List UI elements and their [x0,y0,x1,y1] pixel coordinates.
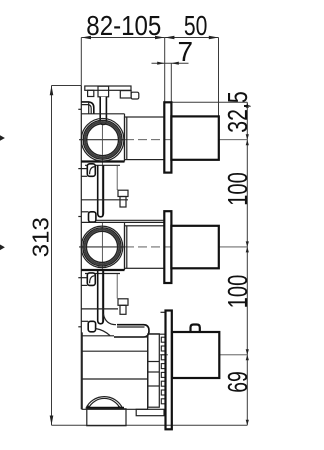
svg-text:32,5: 32,5 [222,91,253,133]
connecting pipe 1 [98,166,104,217]
valve1 block top edge [81,113,124,115]
flow arrow upper left [0,135,5,141]
stub screw gap1 head [118,190,128,196]
diverter right column [148,334,159,407]
bracket screw shaft [100,97,106,125]
top mounting bracket plate [85,86,131,90]
volume cartridge circle outer [81,226,123,268]
valve1 block bottom edge [81,160,124,162]
valve2 block top edge [81,221,164,223]
plate3 top tick [161,311,166,313]
svg-text:313: 313 [27,217,53,257]
valve2 block bottom lip [85,273,120,275]
inlet stub tick station1 [78,108,81,110]
inlet cup gap1 lower [89,212,96,222]
feed line gap1 lower [81,211,88,213]
right dimension chain line [246,102,248,425]
bracket line mid 2 [81,308,118,310]
svg-text:69: 69 [222,371,253,393]
outlet spout [87,409,126,426]
inlet stub tick gap2 lower [78,326,81,328]
small block under plate left [88,90,94,96]
elbow curve boss to block top [96,329,110,336]
inlet cup gap2 lower [88,321,95,332]
valve2 block front face [124,222,126,270]
hidden edge riser gap1 [116,166,118,191]
connecting pipe 2 [98,271,104,324]
arch foot right [118,405,124,408]
outlet cup gap1 upper [87,164,95,177]
stub screw gap1 shaft [120,197,126,208]
arch baseline bold [87,407,124,409]
valve1 front face second line [126,117,128,160]
valve1 block front face [124,114,126,162]
volume cartridge ring inner edge [86,231,117,262]
diverter top left edge [82,335,114,337]
bottom extension line y=425.2 [52,424,248,426]
valve2 block bottom edge [81,269,124,271]
wall plate station 1 [164,102,171,172]
cup inner arc gap1 upper [90,167,96,175]
inlet elbow top (station1) inner [82,105,92,114]
bracket tab right [131,92,139,99]
diverter internal line 1 [82,350,147,352]
thread serration stack [161,337,165,404]
nub on knob 3 [191,325,200,333]
svg-text:100: 100 [222,275,253,309]
extension line left of 82-105 [80,38,82,86]
extension line right of 50 [218,38,220,117]
diverter internal line 2 [82,378,147,380]
valve1 stem to wall [125,117,165,160]
dimension 313 left [27,86,81,426]
diverter column divider 2 [148,371,159,373]
diverter right shelf to plate [149,333,166,335]
diverter column divider 3 [148,385,159,387]
centerline knob 3 [160,354,172,356]
diverter column divider 1 [148,361,159,363]
wall plate station 2 [164,211,171,283]
thermostat cartridge circle outer [81,118,124,161]
elbow curve pipe2 to pill [103,314,116,325]
bracket block right [120,91,131,98]
svg-text:100: 100 [222,172,253,206]
chain arrow ticks [246,102,249,425]
extension line wall plane x=164.7 [164,38,166,103]
feed line gap2 lower [81,320,88,322]
outlet arch inner [89,398,121,408]
wall plate station 3 [166,311,172,430]
dimension 82-105 top [81,10,164,41]
diverter foot shelf [136,409,164,415]
cup inner arc gap2 upper [90,276,96,284]
dimension 7 (plate thickness) [152,36,194,102]
valve1 block bottom lip [85,164,120,166]
back plane (wall side) [80,86,82,410]
flow arrow lower left [0,245,5,251]
bracket screw head [98,86,109,97]
handle knob 1 [171,116,218,159]
channel line into plate2 [96,219,164,221]
centerline valve 2 vertical [101,222,103,272]
centerline valve 2 horizontal [79,246,125,248]
handle knob 3 [172,332,219,378]
outlet arch outer [86,397,123,409]
stub screw gap2 head [118,299,128,306]
svg-text:7: 7 [178,36,194,67]
centerline connecting pipe 2 [101,272,103,324]
inlet elbow top cup edge [88,102,90,114]
svg-text:82-105: 82-105 [86,10,161,41]
volume cartridge ring outer edge [83,228,121,266]
pill inner line [117,326,145,328]
bracket line mid [81,199,128,201]
thermostat cartridge ring inner edge [87,124,119,156]
boss bottom line gap2 upper [81,284,87,286]
thermostat cartridge ring outer edge [83,120,122,159]
dimension 50 top [165,10,219,41]
valve2 stem to wall [125,226,165,268]
hidden edge riser gap2 [116,274,118,299]
arch foot left [85,405,90,408]
inlet pill on diverter top [114,325,149,337]
outlet cup gap2 upper [87,273,95,286]
thermostat cartridge ring mid tone [85,122,120,157]
boss bottom line gap1 upper [81,175,87,177]
centerline valve 1 horizontal [79,139,125,141]
feed line gap2 upper [78,277,87,279]
handle knob 2 [171,226,218,268]
valve2 front face second line [126,226,128,268]
feed line gap1 upper [78,168,87,170]
centerline valve 1 vertical [101,114,103,166]
diverter block outline [82,332,147,409]
volume cartridge ring mid tone [85,230,120,265]
stub screw gap2 shaft [120,305,126,314]
extension top of plate y=102.3 [164,101,247,103]
centerline connecting pipe 1 [101,166,103,217]
inlet stub tick gap1 lower [78,216,81,218]
inlet elbow top (station1) outer [82,102,94,114]
